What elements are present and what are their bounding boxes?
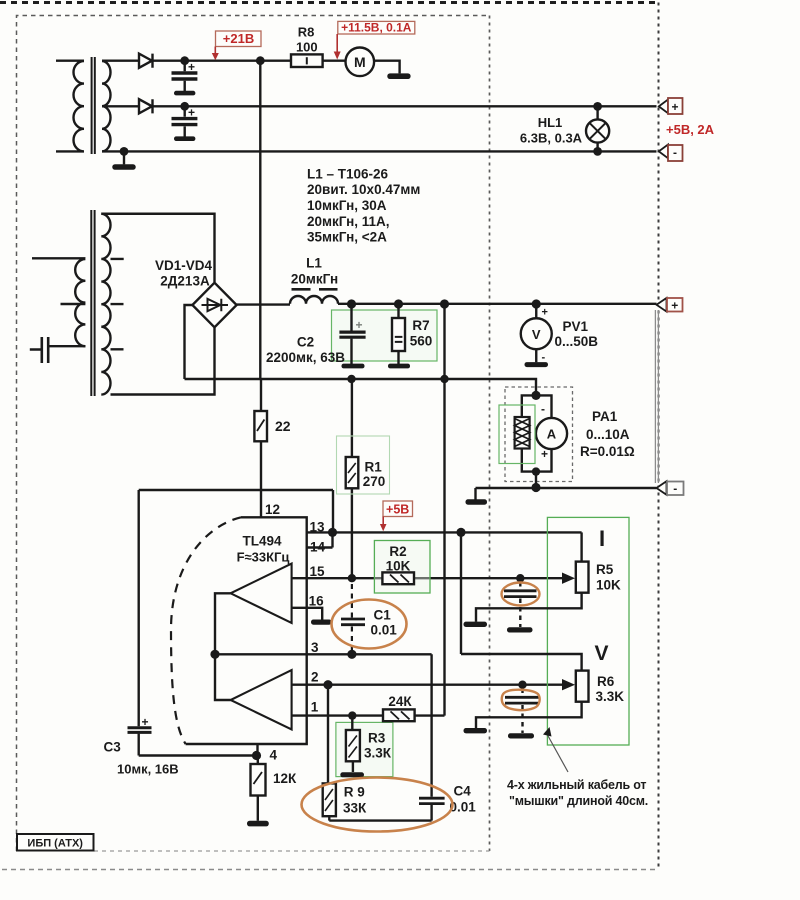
L1 core dashes (292, 288, 338, 291)
orange ellipse around C1 (332, 600, 407, 649)
wire pin16 to ground (292, 608, 323, 620)
terminal main minus (657, 481, 684, 495)
wire pin13 +5V row (333, 531, 582, 533)
wire bottom common rail (102, 150, 657, 152)
resistor R3 (351, 716, 353, 730)
TL494 box solid edges (186, 517, 307, 744)
wire minus line (476, 487, 657, 489)
ground bar PV1 (525, 362, 549, 367)
long wire rail to 24K (443, 304, 445, 716)
svg-text:R7: R7 (412, 318, 429, 333)
potentiometer R5 (576, 562, 589, 593)
svg-text:+: + (671, 100, 678, 114)
ground at T1 secondary bottom (123, 151, 125, 164)
orange ellipse around R9 C4 (302, 778, 453, 832)
svg-text:+21В: +21В (223, 31, 254, 46)
green box I/V panel (547, 517, 629, 745)
outer top dashed line (0, 1, 659, 4)
bridge rectifier VD1-VD4 (192, 283, 236, 328)
svg-text:HL1: HL1 (538, 115, 563, 130)
svg-text:PA1: PA1 (592, 409, 618, 424)
wire secondary bottom to bridge (111, 328, 215, 395)
ground bar 12K (247, 821, 269, 827)
svg-text:2: 2 (311, 670, 319, 685)
wire main plus rail (237, 303, 657, 306)
wire pin1 row (292, 714, 445, 716)
junction dots feeds (252, 751, 261, 760)
lamp HL1 (596, 106, 598, 151)
svg-text:M: M (354, 54, 366, 70)
svg-text:TL494: TL494 (242, 534, 282, 549)
resistor 12K (257, 756, 259, 765)
ground bar R3 (340, 772, 364, 777)
SECTION: minus output line (466, 488, 657, 505)
svg-text:0.01: 0.01 (371, 623, 398, 638)
svg-text:-: - (673, 146, 677, 160)
meter PA1 circle (536, 418, 567, 449)
arrow wiper R6 (562, 679, 575, 690)
capacitor at R5 wiper (dashed) (519, 582, 521, 589)
green box C2 R7 (332, 310, 438, 361)
svg-text:16: 16 (309, 594, 325, 609)
TL494 dashed left arc (171, 517, 241, 744)
svg-text:R2: R2 (389, 544, 406, 559)
SECTION: top aux supply (56, 48, 657, 170)
resistor R9 (323, 783, 336, 816)
capacitor C3 (139, 490, 257, 756)
svg-text:24К: 24К (388, 694, 412, 709)
ground stem minus line (474, 488, 476, 500)
svg-text:0...50В: 0...50В (555, 334, 599, 349)
svg-text:R6: R6 (597, 674, 615, 689)
ground bar capacitor C top (174, 91, 195, 96)
wire vcc line y490 (139, 490, 333, 532)
wire pin12 stub (260, 490, 262, 517)
svg-text:4-х жильный кабель от: 4-х жильный кабель от (507, 778, 646, 792)
ground bar R6 return (464, 728, 488, 733)
wire bottom rail R9-C4 (329, 819, 431, 821)
wire secondary top to bridge (101, 214, 214, 282)
terminal main plus (657, 298, 683, 312)
transformer T1 core (92, 57, 95, 154)
svg-text:R8: R8 (298, 25, 315, 40)
svg-text:R 9: R 9 (344, 785, 365, 800)
svg-text:F≈33КГц: F≈33КГц (237, 550, 290, 565)
resistor R2 (382, 572, 414, 584)
svg-text:+: + (188, 106, 195, 120)
orange blob around R6 wiper cap (502, 690, 540, 710)
SECTION: TL494 area feeds (128, 61, 445, 760)
svg-text:10K: 10K (386, 559, 411, 574)
svg-text:270: 270 (363, 474, 386, 489)
wire mid rail (102, 105, 657, 107)
wire pin13/14 tie (307, 532, 333, 547)
svg-text:4: 4 (270, 748, 278, 763)
ground bar motor (387, 73, 410, 79)
node +11.5V 0.1A (334, 21, 415, 60)
wire PV1 stem (535, 304, 537, 362)
svg-text:2200мк, 63В: 2200мк, 63В (266, 350, 345, 365)
potentiometer R6 (576, 671, 589, 702)
svg-text:22: 22 (275, 418, 291, 434)
primary mid tap stub (61, 303, 86, 305)
svg-text:VD1-VD4: VD1-VD4 (155, 258, 213, 273)
SECTION: output terminals 5V (659, 98, 683, 161)
wire motor to ground (374, 61, 400, 74)
ground bar R5 return (464, 622, 488, 627)
svg-text:+: + (671, 299, 678, 313)
SECTION: labels top (296, 25, 583, 146)
svg-text:С1: С1 (374, 608, 392, 623)
svg-text:-: - (673, 482, 677, 496)
dashed box PA1 (505, 387, 573, 482)
meter PV1 (521, 318, 552, 349)
svg-text:6.3В, 0.3А: 6.3В, 0.3А (520, 131, 583, 146)
arrow wiper R5 (563, 577, 566, 579)
svg-text:R1: R1 (365, 460, 383, 475)
inductor L1 (290, 296, 338, 304)
svg-text:12К: 12К (273, 771, 297, 786)
outer bottom dashed line (2, 869, 659, 871)
transformer T2 core (91, 210, 94, 396)
svg-text:R3: R3 (368, 731, 386, 746)
outer right dashed edge (658, 3, 660, 870)
svg-text:V: V (594, 642, 608, 665)
svg-text:33К: 33К (343, 801, 367, 816)
comparator upper triangle (231, 564, 292, 624)
svg-text:"мышки" длиной 40см.: "мышки" длиной 40см. (509, 794, 648, 808)
svg-text:3: 3 (311, 640, 319, 655)
primary bottom lead (49, 345, 86, 347)
wire return line y379 (185, 379, 537, 395)
green box R2 (374, 541, 430, 594)
node +21V (212, 31, 261, 60)
svg-text:V: V (532, 327, 541, 342)
ground bar minus line (466, 499, 488, 504)
wire +5V feed to R5 top (580, 532, 582, 561)
svg-text:A: A (547, 427, 557, 442)
wire pin3 row (215, 653, 432, 655)
comparator lower triangle (231, 670, 292, 729)
svg-text:0...10А: 0...10А (586, 427, 630, 442)
wire pin12 supply from top rail (259, 61, 261, 379)
svg-text:+: + (542, 307, 548, 319)
SECTION: frames (0, 3, 659, 870)
junction dots top rails (120, 56, 602, 156)
svg-text:2Д213А: 2Д213А (160, 274, 210, 289)
resistor R1 (351, 379, 353, 457)
secondary tap stubs (111, 259, 124, 349)
svg-text:20мкГн, 11А,: 20мкГн, 11А, (307, 214, 390, 229)
svg-text:L1 – Т106-26: L1 – Т106-26 (307, 167, 389, 182)
wire pin2 row (292, 684, 564, 686)
diode VD mid (139, 99, 153, 113)
wire pin4 stub (256, 744, 258, 756)
node +5V (380, 501, 413, 531)
svg-text:12: 12 (265, 502, 280, 517)
svg-text:R5: R5 (596, 562, 614, 577)
svg-text:+5В: +5В (386, 503, 409, 517)
svg-text:100: 100 (296, 40, 318, 55)
green box R3 (336, 722, 393, 776)
SECTION: L1 spec text (307, 167, 420, 245)
junction dots PA1 (531, 391, 540, 492)
transformer T2 secondary winding (101, 214, 110, 395)
svg-text:14: 14 (310, 540, 326, 555)
IBP ATX dashed box (17, 16, 490, 852)
svg-text:1: 1 (311, 700, 319, 715)
wire pin3 to C4 (430, 654, 432, 796)
wire top rail 21V (102, 60, 346, 62)
svg-text:+11.5В, 0.1А: +11.5В, 0.1А (341, 21, 412, 35)
capacitor C1 dashed leads (341, 584, 365, 653)
svg-text:10мкГн, 30А: 10мкГн, 30А (307, 198, 387, 213)
svg-text:10K: 10K (596, 578, 621, 593)
capacitor C2 (350, 304, 352, 364)
svg-text:+5В, 2А: +5В, 2А (666, 122, 715, 137)
pointer arrow to cable (548, 735, 569, 772)
ground bar R7 (388, 364, 410, 369)
capacitor C top (electrolytic) (183, 61, 185, 91)
svg-text:-: - (541, 402, 545, 416)
diode VD top (139, 54, 153, 68)
svg-text:15: 15 (310, 564, 326, 579)
svg-text:3.3К: 3.3К (364, 746, 392, 761)
wire R5 bottom return (476, 593, 582, 622)
svg-text:+: + (541, 447, 548, 461)
svg-text:С4: С4 (454, 784, 472, 799)
orange ellipse around R5 wiper cap (502, 583, 540, 606)
resistor 24K (383, 709, 415, 721)
bridge inner diode (202, 299, 229, 311)
svg-text:20мкГн: 20мкГн (291, 272, 338, 287)
svg-text:13: 13 (310, 520, 326, 535)
ground bar capacitor C mid (174, 136, 195, 141)
SECTION: voltmeter PV1 (521, 304, 552, 367)
capacitor C4 (419, 798, 445, 803)
terminal +5V plus (659, 100, 668, 114)
svg-text:С3: С3 (104, 740, 122, 755)
wire pin2 to R9 (327, 685, 329, 784)
bus double lines right (655, 310, 658, 483)
svg-text:PV1: PV1 (563, 319, 589, 334)
SECTION: main transformer T2 + bridge (30, 210, 237, 396)
SECTION: TL494 body (171, 517, 582, 755)
wire R6 bottom return (476, 702, 582, 729)
svg-text:10мк, 16В: 10мк, 16В (117, 762, 179, 777)
svg-text:3.3K: 3.3K (596, 689, 625, 704)
motor M1 (346, 48, 375, 77)
resistor R7 (397, 304, 399, 364)
junction dots main rail (347, 299, 541, 383)
svg-text:+: + (188, 60, 195, 74)
green box shunt (499, 405, 535, 464)
junction dots TL494 (210, 528, 526, 720)
wire pin15 row (292, 577, 564, 579)
label box IBP ATX (17, 834, 94, 851)
resistor 22 ohm (260, 379, 262, 411)
svg-text:С2: С2 (297, 335, 314, 350)
pin number labels (309, 520, 326, 715)
wires shunt/meter parallel (522, 395, 552, 487)
ground bar C2 (342, 364, 365, 369)
green box R1 (337, 436, 390, 494)
transformer T1 secondary winding (102, 61, 111, 151)
wire bridge minus down-left (185, 305, 193, 379)
capacitor C mid (electrolytic) (183, 106, 185, 136)
resistor R8 (291, 54, 323, 67)
svg-text:L1: L1 (306, 256, 322, 271)
svg-text:20вит. 10х0.47мм: 20вит. 10х0.47мм (307, 182, 420, 197)
terminal +5V minus (659, 145, 668, 159)
svg-text:35мкГн, <2А: 35мкГн, <2А (307, 230, 387, 245)
shunt resistor (515, 417, 530, 449)
svg-text:I: I (599, 526, 605, 551)
wire comparator outputs (215, 593, 231, 700)
capacitor at R6 wiper (dashed) (521, 689, 523, 696)
capacitor at T2 primary (30, 337, 48, 363)
transformer T2 primary winding (32, 258, 85, 346)
transformer T1 primary winding (56, 61, 84, 152)
wire +5V feed to R6 top (461, 532, 582, 670)
svg-text:R=0.01Ω: R=0.01Ω (580, 444, 635, 459)
svg-text:ИБП (АТХ): ИБП (АТХ) (27, 838, 83, 850)
svg-text:560: 560 (410, 334, 433, 349)
svg-text:-: - (542, 352, 546, 364)
